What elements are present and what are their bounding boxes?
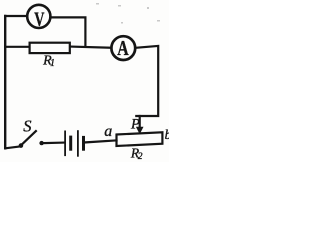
ammeter A	[111, 36, 135, 60]
voltmeter V	[27, 5, 50, 28]
wire: left branch to R1	[5, 46, 29, 48]
svg-text:1: 1	[50, 58, 55, 69]
wire: slider P arrow shaft	[139, 116, 141, 128]
wire: voltmeter right to corner then down to R1 line	[52, 17, 86, 46]
wire: left vertical rail	[4, 16, 6, 148]
svg-text:2: 2	[138, 152, 143, 162]
scan noise specks	[96, 3, 160, 24]
wire: switch contact to battery	[44, 142, 64, 145]
battery cell 1 long plate	[64, 131, 66, 155]
wire: ammeter right, down right side, to slider	[136, 46, 158, 116]
svg-text:A: A	[117, 36, 129, 60]
battery cell 1 short plate	[69, 137, 72, 149]
wire: bottom-left to switch pivot	[5, 147, 19, 149]
svg-text:b: b	[165, 127, 169, 142]
battery cell 2 short plate	[82, 137, 85, 149]
slider P arrowhead	[136, 127, 144, 134]
rheostat R2 body	[117, 132, 163, 146]
svg-text:P: P	[130, 117, 140, 133]
svg-text:S: S	[23, 116, 31, 135]
switch S blade	[22, 131, 36, 145]
wire: battery to rheostat terminal a	[85, 140, 116, 142]
wire: R1 to ammeter	[71, 47, 110, 48]
wire: top-left horizontal to voltmeter	[5, 15, 26, 17]
svg-text:a: a	[104, 123, 112, 140]
resistor R1	[30, 43, 70, 53]
battery cell 2 long plate	[77, 131, 79, 156]
switch contact junction dot	[39, 141, 43, 145]
switch pivot junction dot	[19, 143, 24, 148]
svg-text:V: V	[34, 8, 44, 30]
